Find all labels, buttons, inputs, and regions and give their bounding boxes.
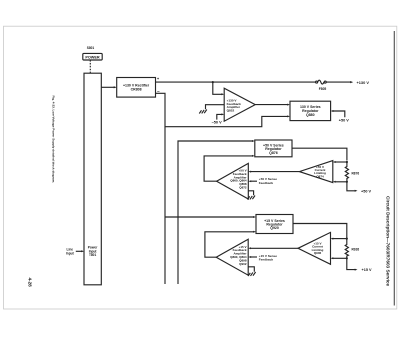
svg-text:Feedback: Feedback	[259, 181, 274, 185]
svg-text:F805: F805	[319, 87, 327, 91]
wire +130V rail	[156, 81, 316, 83]
wire amp output	[255, 104, 288, 106]
wire amp mid input	[206, 105, 225, 110]
node +15 V out	[362, 268, 372, 272]
wire feedback output loop	[204, 156, 253, 181]
wire ground input	[248, 267, 254, 272]
fuse F805	[316, 81, 318, 83]
resistor R926	[345, 239, 348, 258]
svg-text:R876: R876	[352, 172, 360, 176]
node +50V sense feedback label	[259, 177, 277, 185]
op-amp Q852	[224, 88, 255, 121]
wire sense feedback arrow	[250, 256, 257, 258]
ground chassis mid	[248, 196, 256, 200]
node +	[157, 76, 160, 81]
wire left rail B	[178, 141, 253, 284]
svg-text:Feedback: Feedback	[259, 258, 274, 262]
wire rectifier minus path	[156, 93, 289, 126]
wire regulator output to sense resistor	[293, 224, 347, 239]
op-amp Q874 current limiting	[299, 161, 332, 183]
svg-text:R926: R926	[352, 248, 360, 252]
node -	[157, 89, 160, 94]
op-amp Q890 feedback	[216, 239, 248, 275]
wire regulator output to sense resistor	[292, 148, 347, 160]
svg-text:Q920: Q920	[270, 226, 279, 230]
wire sense taps	[332, 238, 347, 240]
node junction	[346, 161, 348, 163]
svg-text:Q902: Q902	[239, 262, 247, 266]
svg-text:−50 V: −50 V	[212, 120, 222, 124]
svg-text:T801: T801	[89, 253, 96, 257]
svg-text:Q880: Q880	[306, 113, 315, 117]
transformer T801	[84, 73, 101, 285]
svg-text:POWER: POWER	[85, 56, 100, 60]
right margin rule	[393, 31, 395, 306]
wire current limit output	[250, 247, 298, 249]
node junction	[346, 238, 348, 240]
svg-text:+50 V: +50 V	[339, 119, 349, 123]
svg-text:Q852: Q852	[227, 109, 235, 113]
svg-text:Q876: Q876	[269, 151, 278, 155]
wire dashed S801 to T801	[89, 60, 91, 73]
svg-text:Circuit Description—7603/R7603: Circuit Description—7603/R7603 Service	[386, 196, 391, 287]
wire feedback output loop	[205, 232, 254, 257]
resistor R876	[345, 162, 348, 182]
regulator Q880	[290, 101, 331, 120]
svg-text:+15 V: +15 V	[362, 268, 372, 272]
wire sense taps	[335, 161, 347, 163]
node -50 V	[212, 120, 222, 124]
wire +50V output	[347, 182, 356, 191]
node +50 V ref	[339, 119, 349, 123]
node junction	[346, 181, 348, 183]
wire current limit output	[250, 171, 299, 173]
svg-text:Q906: Q906	[314, 251, 322, 255]
ground chassis bottom	[248, 272, 256, 276]
switch S801 label	[87, 46, 95, 50]
node +50 V out	[361, 189, 371, 193]
node +130 V	[357, 80, 370, 85]
svg-text:Input: Input	[66, 252, 75, 256]
svg-text:Q874: Q874	[316, 174, 324, 178]
rectifier CR808	[117, 78, 156, 98]
svg-text:S801: S801	[87, 46, 95, 50]
wire ground input	[248, 191, 253, 196]
node junction	[346, 257, 348, 259]
regulator Q876	[255, 140, 292, 157]
svg-text:4-28: 4-28	[28, 278, 33, 288]
wire T801 to rectifier	[101, 86, 115, 88]
svg-text:Fig. 4-23. Low-Voltage Power: Fig. 4-23. Low-Voltage Power Supply deta…	[52, 96, 56, 184]
svg-text:Q872: Q872	[239, 186, 247, 190]
ground chassis top	[199, 110, 207, 114]
op-amp Q906 current limiting	[298, 232, 331, 264]
wire +50V ref into regulator	[332, 111, 344, 117]
svg-text:+50 V: +50 V	[361, 189, 371, 193]
switch POWER	[83, 53, 102, 60]
node Line Input	[66, 248, 75, 256]
wire -50V stub to amp	[217, 114, 223, 119]
op-amp Q860 feedback	[217, 163, 249, 199]
svg-text:+130 V: +130 V	[357, 80, 370, 85]
wire left rail A	[164, 127, 166, 284]
node +15V sense feedback label	[259, 254, 277, 262]
svg-text:CR808: CR808	[131, 87, 142, 91]
regulator Q920	[256, 215, 293, 234]
wire line-input arrow	[76, 250, 83, 252]
wire +15V output	[347, 258, 356, 269]
wire sense feedback arrow	[250, 180, 257, 182]
node junction on rail	[212, 81, 214, 83]
wire rail drop to amp	[213, 82, 223, 94]
wire rail A branch to +15V regulator	[165, 216, 254, 218]
wire +130V output arrow	[326, 81, 351, 83]
